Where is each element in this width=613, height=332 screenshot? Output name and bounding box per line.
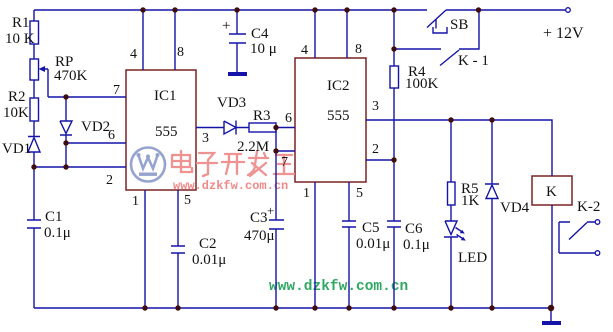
- svg-text:7: 7: [113, 83, 120, 98]
- top +12V rail: [34, 9, 566, 11]
- wire IC2 pin4: [314, 10, 316, 58]
- svg-text:IC1: IC1: [154, 88, 177, 104]
- svg-text:1K: 1K: [461, 193, 480, 209]
- wire R2-VD1: [33, 121, 35, 137]
- terminal +12V: [566, 8, 571, 13]
- svg-text:470K: 470K: [54, 68, 88, 84]
- svg-text:0.01μ: 0.01μ: [192, 252, 226, 268]
- wire R3-pin6 stub: [276, 127, 295, 129]
- wire IC2 pin5: [348, 182, 350, 221]
- svg-text:VD3: VD3: [217, 95, 246, 111]
- svg-text:R3: R3: [253, 108, 271, 124]
- capacitor C3: [269, 220, 284, 308]
- LED arrowheads: [460, 230, 466, 241]
- diode VD1: [28, 137, 40, 168]
- wire IC2 pin3 line: [366, 120, 552, 176]
- wire pin6-pin7 tie: [275, 128, 277, 152]
- resistor R2: [30, 98, 39, 121]
- wire R1 top: [33, 10, 35, 21]
- resistor R4: [390, 66, 399, 88]
- watermark chinese char 王: [274, 155, 294, 174]
- wire pin6 line: [66, 142, 126, 144]
- svg-text:5: 5: [356, 186, 363, 201]
- watermark chinese char 电: [172, 151, 192, 172]
- watermark logo W circle: [131, 148, 165, 182]
- svg-text:2.2M: 2.2M: [237, 139, 269, 155]
- svg-text:www.dzkfw.com.cn: www.dzkfw.com.cn: [269, 279, 408, 295]
- bottom ground rail: [34, 307, 551, 309]
- svg-text:6: 6: [285, 111, 292, 126]
- svg-text:C4: C4: [251, 26, 269, 42]
- switch SB: [427, 10, 447, 33]
- wire pin7 stub: [276, 150, 295, 152]
- svg-text:10 K: 10 K: [5, 31, 35, 47]
- svg-text:C6: C6: [405, 221, 423, 237]
- wire pin2 line: [34, 166, 126, 168]
- svg-text:5: 5: [184, 193, 191, 208]
- svg-text:C3: C3: [250, 210, 268, 226]
- svg-text:3: 3: [202, 131, 209, 146]
- svg-text:3: 3: [372, 99, 379, 114]
- svg-text:+: +: [267, 203, 274, 218]
- svg-text:C5: C5: [362, 220, 380, 236]
- svg-text:1: 1: [132, 194, 139, 209]
- svg-text:R2: R2: [8, 89, 26, 105]
- capacitor C5: [342, 221, 356, 308]
- svg-text:K: K: [546, 184, 557, 200]
- switch K-1: [394, 10, 479, 66]
- RP wiper arrow: [43, 69, 48, 97]
- svg-text:7: 7: [281, 155, 288, 170]
- potentiometer RP: [30, 59, 39, 80]
- svg-text:4: 4: [301, 43, 308, 58]
- wire IC1 pin1: [144, 190, 146, 308]
- capacitor C1: [27, 220, 41, 308]
- relay contact K-2: [559, 222, 595, 253]
- capacitor C2: [171, 246, 185, 308]
- wire IC2 pin8: [346, 10, 348, 58]
- RP arrowhead: [39, 66, 46, 72]
- LED: [444, 205, 458, 308]
- svg-text:0.01μ: 0.01μ: [356, 236, 390, 252]
- svg-text:8: 8: [355, 42, 362, 57]
- wire IC1 pin4: [142, 10, 144, 70]
- svg-text:10 μ: 10 μ: [250, 41, 277, 57]
- wire IC2 pin2 stub: [366, 159, 394, 161]
- wire IC1 pin3: [196, 127, 224, 129]
- relay coil K: [532, 176, 572, 205]
- wire RP-R2: [33, 80, 35, 98]
- ground symbol bottom right: [542, 321, 561, 325]
- svg-text:4: 4: [130, 47, 137, 62]
- svg-text:K - 1: K - 1: [458, 53, 489, 69]
- svg-text:R1: R1: [12, 15, 30, 31]
- op-amp IC2 box: [295, 58, 366, 182]
- svg-text:6: 6: [108, 128, 115, 143]
- wire K coil bottom: [551, 205, 552, 321]
- wire node to C1: [33, 167, 35, 220]
- svg-text:LED: LED: [458, 250, 487, 266]
- svg-text:C2: C2: [199, 236, 217, 252]
- wire pin7 line: [48, 96, 126, 98]
- resistor R5: [448, 182, 456, 205]
- ground symbol C4: [228, 72, 247, 76]
- svg-text:www.dzkfw.com.cn: www.dzkfw.com.cn: [173, 179, 288, 193]
- resistor R3: [249, 123, 276, 132]
- wire IC1 pin8: [174, 10, 176, 70]
- svg-text:IC2: IC2: [327, 78, 350, 94]
- terminal K-2 bottom: [595, 251, 600, 256]
- svg-text:+ 12V: + 12V: [543, 25, 584, 42]
- svg-text:+: +: [222, 18, 230, 34]
- wire IC1 pin5: [177, 190, 179, 246]
- wire IC2 pin1: [314, 182, 316, 308]
- capacitor C4: [229, 10, 246, 72]
- diode VD4: [485, 120, 499, 308]
- svg-text:0.1μ: 0.1μ: [403, 237, 430, 253]
- svg-text:VD4: VD4: [500, 200, 530, 216]
- diode VD3: [224, 121, 249, 135]
- watermark chinese char 发: [248, 151, 268, 176]
- wire VD2 branch: [65, 97, 67, 121]
- wire R4 top: [393, 10, 395, 66]
- svg-text:555: 555: [327, 108, 350, 124]
- svg-text:8: 8: [177, 45, 184, 60]
- wire R5 top: [450, 120, 452, 182]
- svg-text:VD2: VD2: [81, 119, 110, 135]
- svg-text:C1: C1: [45, 209, 63, 225]
- wire node to C3: [275, 151, 277, 220]
- svg-text:470μ: 470μ: [244, 228, 275, 244]
- capacitor C6: [387, 221, 401, 308]
- svg-text:VD1: VD1: [2, 141, 31, 157]
- diode VD2: [60, 121, 72, 167]
- LED arrows: [456, 228, 463, 239]
- svg-text:2: 2: [372, 142, 379, 157]
- watermark chinese char 子: [197, 153, 217, 176]
- wire R1-RP: [33, 44, 35, 59]
- svg-text:555: 555: [155, 124, 178, 140]
- svg-text:SB: SB: [450, 17, 468, 33]
- svg-text:10K: 10K: [3, 105, 29, 121]
- svg-text:1: 1: [303, 186, 310, 201]
- svg-text:2: 2: [106, 173, 113, 188]
- op-amp IC1 box: [126, 70, 196, 190]
- resistor R1: [30, 21, 39, 44]
- watermark chinese char 开: [222, 154, 244, 174]
- terminal K-2 top: [595, 220, 600, 225]
- wire R4 bottom: [393, 88, 395, 221]
- svg-text:K-2: K-2: [577, 199, 600, 215]
- svg-text:0.1μ: 0.1μ: [44, 225, 71, 241]
- svg-text:100K: 100K: [405, 76, 439, 92]
